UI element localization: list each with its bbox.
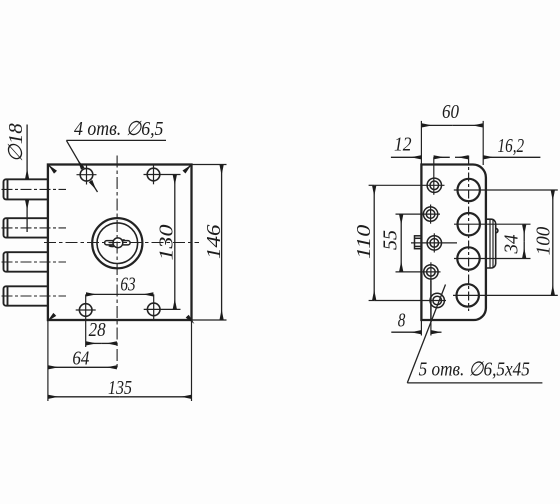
bolt 4 (4, 286, 48, 305)
bolt 1 (top deadbolt) (4, 179, 48, 199)
bolt hole B3 (454, 247, 531, 269)
dim 55 (400, 215, 402, 272)
corner slash mark bottom-right (187, 316, 192, 321)
svg-text:60: 60 (442, 101, 460, 124)
dim 110 (369, 185, 375, 300)
screw hole S3 (411, 233, 457, 252)
key ward bump above bar right (122, 239, 125, 242)
dim 64 (48, 366, 117, 368)
body vertical centerline (116, 156, 118, 371)
dim D18 arrows (26, 125, 28, 233)
dim 60 (422, 124, 483, 126)
svg-text:∅18: ∅18 (5, 122, 26, 162)
svg-text:4 отв. ∅6,5: 4 отв. ∅6,5 (74, 118, 163, 140)
corner slash mark top-left (49, 165, 56, 172)
dim 12 (391, 156, 450, 158)
cylinder housing protrusion right side (487, 219, 498, 268)
key ward line inside bar (109, 242, 115, 244)
mounting hole top-left (77, 165, 97, 185)
svg-text:55: 55 (380, 230, 402, 250)
svg-text:12: 12 (394, 133, 412, 155)
dim 130 line (174, 175, 176, 309)
inner vertical line near bottom (430, 280, 432, 320)
svg-text:34: 34 (501, 234, 523, 254)
svg-text:100: 100 (533, 226, 555, 255)
dim 34 (523, 225, 525, 259)
dim 64 extension left (47, 320, 49, 401)
dim 8 (391, 321, 441, 336)
bolt hole B1 (454, 179, 558, 201)
keyhole inner circle (97, 223, 138, 264)
svg-text:146: 146 (202, 224, 224, 259)
key slot center boss (113, 238, 123, 248)
corner slash mark top-right (184, 165, 191, 172)
svg-text:16,2: 16,2 (498, 134, 525, 157)
svg-text:28: 28 (89, 319, 107, 342)
label 5 otv leader (407, 285, 542, 383)
bolt 2 centerline (2, 227, 67, 229)
screw hole S4 (396, 262, 441, 281)
mounting hole bottom-left (76, 294, 96, 347)
bolt hole B2 (454, 213, 531, 235)
label 4 otv leader (66, 140, 166, 192)
faceplate outline (421, 165, 486, 321)
svg-text:130: 130 (154, 225, 177, 261)
screw hole S2 (396, 205, 441, 224)
bolt 3 centerline (2, 261, 67, 263)
key slot bar right half (122, 241, 130, 245)
dim 135 extension right (191, 320, 193, 401)
dim 60 extensions (421, 121, 483, 165)
corner slash mark bottom-left (48, 314, 55, 321)
lock body outline (48, 165, 192, 321)
dim 100 (552, 190, 554, 295)
dim 63 (86, 293, 153, 295)
bolt 3 (4, 252, 48, 272)
body horizontal centerline (44, 242, 199, 244)
mounting hole top-right (144, 165, 181, 185)
latch tab on left edge (415, 236, 422, 249)
dim 135 (48, 396, 191, 398)
keyhole outer circle (92, 218, 142, 268)
dim 16,2 (455, 156, 540, 158)
bolt hole B4 (453, 284, 558, 306)
svg-text:63: 63 (120, 273, 135, 296)
svg-text:8: 8 (398, 309, 406, 332)
dim 28 (86, 342, 117, 344)
bolt 4 centerline (2, 295, 67, 297)
bolt holes vertical centerline (468, 156, 470, 312)
svg-text:110: 110 (352, 225, 375, 259)
svg-text:5 отв. ∅6,5х45: 5 отв. ∅6,5х45 (419, 358, 530, 381)
svg-text:135: 135 (108, 376, 132, 398)
dim 146 extensions (192, 165, 227, 321)
screw hole S5 (374, 293, 446, 307)
mounting hole bottom-right (144, 294, 181, 319)
screw hole S1 (374, 157, 444, 195)
dim 146 line (221, 165, 223, 320)
bolt 2 (4, 218, 48, 237)
key slot bar left half (105, 241, 114, 245)
bolt 1 centerline (2, 188, 67, 190)
key ward smudge below bar (109, 245, 115, 248)
svg-text:64: 64 (72, 347, 89, 370)
